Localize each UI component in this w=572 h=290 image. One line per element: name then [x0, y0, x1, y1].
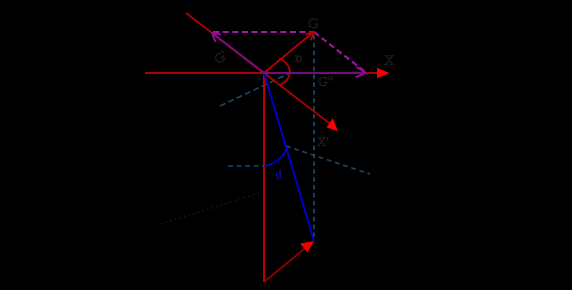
svg-text:G: G	[308, 16, 319, 32]
svg-text:X': X'	[317, 134, 329, 149]
svg-text:G'': G''	[318, 75, 333, 90]
svg-text:X: X	[384, 53, 395, 69]
svg-text:β: β	[275, 169, 281, 183]
svg-text:α: α	[295, 52, 303, 67]
